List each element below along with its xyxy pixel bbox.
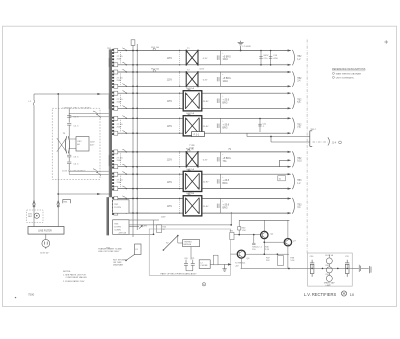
resistor R30 on drop [238,220,240,234]
svg-text:+5 BRG: +5 BRG [223,158,231,160]
transistor Q2 [261,231,268,238]
svg-text:115V: 115V [90,142,95,144]
row 4 top wire / bottom wire [113,118,291,133]
fuse FU11 [326,267,332,273]
circuit breaker CB4A [114,116,118,120]
riser to relay K1 coil [153,220,155,234]
svg-text:115V: 115V [167,80,173,82]
row 7 dashed link [120,200,122,212]
transformer T8 (core arcs) [65,136,69,153]
row 5 terminal brace [292,151,294,167]
row 1 dashed link [120,52,122,63]
svg-text:250V: 250V [117,80,122,82]
row 2 feed junctions [132,71,138,87]
circuit breaker CB4B [114,131,118,135]
svg-text:C20: C20 [184,258,187,260]
svg-text:J1-4: J1-4 [332,142,337,144]
neon indicator DS1 (dashed box) [27,210,43,223]
base wire [231,234,261,236]
svg-text:PART OF RECTIFIER BOARD ASSY: PART OF RECTIFIER BOARD ASSY [161,272,198,275]
transformer T3 (shielded) [183,89,202,111]
circuit breaker CB7B [114,211,118,215]
capacitor C20 [184,260,188,271]
row 7 primary dashed link [179,200,181,212]
svg-text:19 PIN: 19 PIN [114,207,121,209]
circuit breaker CB7A [114,197,118,201]
line filter FL1 (box) [28,227,64,235]
svg-text:+-20.8: +-20.8 [223,125,230,127]
svg-text:6.3V: 6.3V [203,79,208,81]
terminal bracket TB4 [63,199,71,203]
svg-text:20.8V: 20.8V [203,206,209,208]
terminal block TB2 (upper box) [113,200,129,213]
row 7 disconnect hooks [122,196,127,214]
svg-text:TB2: TB2 [297,78,302,80]
circuit breaker CB2B [114,84,118,88]
connector pin circle [339,141,342,144]
svg-text:C2 .5: C2 .5 [73,126,79,128]
row 1 primary dashed link [179,52,181,64]
svg-text:OSC: OSC [77,141,82,143]
wire C31 tap [346,264,348,268]
svg-text:100A: 100A [223,80,229,83]
rectifier CR4 [217,118,220,133]
svg-text:MAIN WIRING DIAGRAM: MAIN WIRING DIAGRAM [336,73,361,76]
svg-text:115V 60~: 115V 60~ [40,253,50,255]
wire choke to arrow [210,263,229,265]
bus terminal pins row 3 [112,92,114,111]
output connector bars [369,266,371,273]
capacitor C4 [67,162,71,170]
ground junction node [240,50,242,52]
capacitor C31 (electrolytic) [345,260,349,277]
row 6 top wire / bottom wire [113,174,291,188]
circuit breaker CB6B [114,187,118,191]
row 2 top wire / bottom wire [113,72,291,86]
row 6 terminal brace [292,174,294,190]
svg-text:115V: 115V [167,126,173,128]
AC input line L1 (vertical) [33,94,35,227]
choke L2 (box) [199,260,210,269]
svg-text:TB2: TB2 [297,158,302,160]
row 7 output arrows [288,197,292,214]
row 4 dashed link [120,120,122,132]
Q7 collector wire [287,220,289,238]
wire +28V tap [129,226,139,228]
svg-text:250V: 250V [117,127,122,129]
resistor R33 (box, vertical) [213,255,218,265]
row 6 disconnect hooks [122,172,127,190]
switch S1 arm [126,254,135,260]
row 1 top wire / bottom wire [113,51,291,65]
AC distribution bus TB1 (gray band) [109,49,112,197]
+28V rail wire [129,224,231,226]
arrow terminal B [57,201,60,207]
wire S2 to bridge [177,236,179,243]
bus lower section (gray band) [106,197,109,235]
wire below dashed box [58,193,110,195]
wire TB2 out 1 [129,212,149,214]
row 1 terminal brace [292,50,294,66]
wire to connector (upper) [247,136,310,138]
svg-text:BRG: BRG [223,183,228,185]
row 6 feed junctions [132,173,138,189]
wire to connector (lower) [271,141,310,143]
svg-text:FU12: FU12 [326,274,331,276]
cable dash-dot to J1 [313,141,328,143]
svg-text:LINE FILTER: LINE FILTER [38,230,52,232]
AC plug P1 [42,240,50,248]
svg-text:1.5K: 1.5K [242,230,247,232]
wire TB2 out 2 [129,219,159,221]
svg-text:C3 .5: C3 .5 [73,156,79,158]
svg-text:250V: 250V [117,160,122,162]
svg-text:COMPONENT VALUES: COMPONENT VALUES [66,276,88,279]
transistor Q7 [284,239,291,246]
svg-text:400~: 400~ [90,144,95,146]
svg-text:R31: R31 [230,230,233,232]
row 4 terminal brace [292,118,294,134]
wire L1 to bus (horizontal) [34,93,111,95]
resistor R34 (box, vertical) [278,255,284,265]
switch S2 [163,236,177,250]
emitter resistor chain wire [245,253,289,255]
row 5 center tap wire [279,160,288,166]
rectifier CR1 [217,51,220,65]
svg-text:+5 BRG: +5 BRG [223,78,231,80]
capacitor C11 (row 4) [258,119,261,133]
rectifier CR5 [217,152,220,167]
circuit breaker CB3B [114,106,118,110]
wire T7 bias drop [230,212,232,225]
svg-text:6.3V: 6.3V [203,58,208,60]
svg-text:2.2K: 2.2K [265,249,270,251]
wire filter to plug [45,234,47,240]
wires T8 to A1 [69,136,76,155]
filter main wire [308,267,353,269]
svg-text:TO REGUL: TO REGUL [235,263,246,265]
transformer T2 [186,69,198,87]
svg-text:F 2-1: F 2-1 [194,133,200,136]
Q7 base wire [264,241,284,243]
rectifier CR7 [217,199,220,214]
svg-text:+5V: +5V [235,265,239,267]
wire pair to bus (upper) [69,113,109,116]
svg-text:115V: 115V [167,58,173,60]
arrow terminal A [33,201,36,207]
varistor MOV1 (row 1) [259,51,262,65]
svg-text:115V: 115V [167,101,173,103]
svg-text:9,10: 9,10 [297,161,302,163]
Q2 collector wire [263,220,265,231]
row 3 disconnect hooks [122,91,127,109]
svg-text:+-20.8: +-20.8 [223,100,230,102]
bus terminal pins row 7 [112,197,114,215]
bus terminal pins row 5 [112,150,114,168]
svg-text:TB3: TB3 [297,180,302,182]
terminal block TB3 (lower box) [113,220,129,235]
transformer T5 [186,149,198,167]
svg-text:TB2-7: TB2-7 [310,129,317,131]
ground GND2 [222,264,226,271]
wire junction drop [270,137,272,143]
resistor R6 (row 6) [278,176,286,181]
row 4 output arrows [288,117,292,134]
wire bridge down [190,247,192,260]
filter junction nodes [322,268,324,270]
capacitor C30 (electrolytic) [310,260,314,277]
capacitor C3 [67,155,71,161]
svg-text:250V: 250V [117,58,122,60]
svg-text:20.8V: 20.8V [203,126,209,128]
Q2 emitter wire [263,239,265,255]
svg-text:2. FUSES RATED 250V: 2. FUSES RATED 250V [63,280,85,283]
output capacitor ticks [359,265,360,272]
svg-text:1. SEE PARTS LIST FOR: 1. SEE PARTS LIST FOR [63,274,86,277]
wire caps bottom rail [186,270,193,272]
upper bus hook [93,111,98,115]
resistor R20 (box) [157,225,162,233]
bus terminal pins row 4 [112,117,114,135]
zone symbol (circled 4) [202,283,205,286]
capacitor C12 [252,235,255,245]
output arrow to regulator [228,263,232,265]
row 5 disconnect hooks [122,149,127,167]
row 4 primary dashed link [179,120,181,133]
row 2 disconnect hooks [122,69,127,87]
bus terminal pins row 2 [112,70,114,88]
capacitor C21 [191,260,195,271]
circuit breaker CB6A [114,172,118,176]
circuit breaker CB5B [114,165,118,169]
rectifier CR3 [217,93,220,108]
svg-text:20.8V: 20.8V [203,101,209,103]
115V feed wire A (vertical) [132,40,134,237]
svg-text:NOTES:: NOTES: [63,271,71,273]
row 3 terminal brace [292,93,294,109]
rectifier CR6 [217,174,220,188]
svg-text:20.8V: 20.8V [203,182,209,184]
svg-text:C12 .1: C12 .1 [256,246,263,248]
fuse chain stubs [328,255,330,276]
Q7 emitter wire [287,246,289,269]
T8 core cross wires [57,138,67,152]
connector J1 brace [328,137,330,145]
svg-text:115V: 115V [188,193,193,195]
fuse FU10 [326,258,332,264]
row 4 disconnect hooks [122,116,127,134]
svg-text:115V: 115V [199,69,204,71]
transformer T1 [186,48,198,66]
return line (vertical) [57,94,59,227]
resistor R31 (box at board edge) [230,232,234,239]
wire TB3 out [129,233,154,235]
row 4 feed junctions [132,117,138,134]
relay K1 (box) [135,244,141,255]
capacitor C2 [67,123,71,136]
row 6 primary dashed link [179,175,181,187]
svg-text:250V: 250V [117,102,122,104]
row 3 output arrows [288,92,292,109]
row 6 dashed link [120,176,122,187]
row 5 output arrows [288,151,292,168]
revision symbol [341,291,346,296]
svg-text:TRANSFORMER T1 AND: TRANSFORMER T1 AND [98,247,122,250]
transformer T4 (shielded) [183,114,202,136]
row 3 dashed link [120,95,122,107]
svg-text:115V: 115V [167,182,173,184]
filter output wire [352,267,359,269]
filter enclosure box [308,253,353,286]
connector TB2-7 bracket [310,131,312,147]
chassis ground GND1 [238,41,244,51]
row 7 top wire / bottom wire [113,199,291,214]
transistor Q6 [237,250,245,258]
svg-text:250V: 250V [117,182,122,184]
lower bus hook [93,169,98,173]
svg-text:+-20.8: +-20.8 [223,180,230,182]
svg-text:CHOKE: CHOKE [200,265,208,267]
svg-text:10: 10 [350,293,354,297]
circuit breaker CB5A [114,150,118,154]
svg-text:TB2: TB2 [297,56,302,58]
sheet mark dot [15,297,16,298]
wire row4 to TB2-7 (vertical) [246,133,248,136]
row 7 terminal brace [292,198,294,214]
svg-text:+-20.8: +-20.8 [223,205,230,207]
row 1 disconnect hooks [122,48,127,66]
bus terminal pins row 1 [112,49,114,67]
svg-text:REFERENCE DESIGNATIONS: REFERENCE DESIGNATIONS [332,68,366,71]
svg-text:115V: 115V [189,148,194,150]
svg-text:TB2: TB2 [297,99,302,101]
part number box F2-1 [192,132,205,137]
svg-text:19 PIN: 19 PIN [114,227,121,229]
svg-text:LINE CKTS REF ONLY: LINE CKTS REF ONLY [98,251,120,253]
row 2 primary dashed link [179,73,181,85]
thyrector bridge CR10 (box) [183,240,200,247]
svg-text:BRIDGE: BRIDGE [184,244,192,246]
indicator lamp DS1 [34,213,39,218]
svg-text:CONTROL RECT OSC ASSY: CONTROL RECT OSC ASSY [62,107,91,110]
row 3 primary dashed link [179,94,181,107]
svg-text:MOV: MOV [264,55,269,57]
svg-text:115V: 115V [167,160,173,162]
svg-text:75A: 75A [223,160,228,163]
arrow +28V [139,225,142,228]
row 3 top wire / bottom wire [113,93,291,108]
svg-text:DIAGRAM: DIAGRAM [113,264,123,267]
svg-text:7S: 7S [228,149,231,151]
chassis boundary line (dash-dot vertical) [306,40,308,254]
fuse FU12 [326,275,332,281]
svg-text:LT GRN: LT GRN [243,46,251,48]
circuit breaker CB1A [114,49,118,53]
svg-text:BRG: BRG [223,127,228,129]
oscillator module A1 (box) [76,137,89,151]
115V feed wire B (vertical) [136,44,138,230]
output wire 2 [361,267,369,269]
svg-text:7500: 7500 [28,292,35,296]
svg-text:LAMP: LAMP [326,284,332,287]
capacitor C1 [67,108,71,122]
circuit breaker CB2A [114,70,118,74]
svg-text:+28V 2A: +28V 2A [118,231,127,234]
svg-text:UNIT SCHEMATIC: UNIT SCHEMATIC [336,77,355,80]
svg-text:TB3: TB3 [297,204,302,206]
svg-text:100A: 100A [223,58,229,61]
row 5 top wire / bottom wire [113,152,291,167]
junction node [270,136,272,138]
circuit breaker CB1B [114,63,118,67]
svg-text:L.V. RECTIFIERS: L.V. RECTIFIERS [304,292,337,297]
svg-text:6.3V: 6.3V [203,160,208,162]
row 5 primary dashed link [179,153,181,165]
circuit breaker CB3A [114,91,118,95]
svg-text:+5 BRG: +5 BRG [223,56,231,58]
svg-text:TB2: TB2 [297,124,302,126]
row 2 terminal brace [292,71,294,87]
row 2 dashed link [120,74,122,85]
bias rail wire [239,219,289,221]
row 7 feed junctions [132,198,138,214]
registration cross mark [384,40,388,44]
svg-text:C21: C21 [191,258,194,260]
wire C30 tap [311,264,313,268]
row 1 output arrows [288,49,292,66]
row 2 output arrows [288,71,292,88]
row 1 feed junctions [132,50,138,66]
svg-text:BRG: BRG [223,207,228,209]
row 5 dashed link [120,153,122,165]
lower rail to filter [241,268,308,270]
row 3 feed junctions [132,92,138,109]
bus terminal pins row 6 [112,173,114,191]
rectifier board outline [149,229,230,275]
svg-text:CONN: CONN [114,230,121,232]
rectifier CR2 [217,72,220,86]
regulator dashed enclosure [52,108,100,179]
Q6 base wire [231,253,238,255]
svg-text:115V: 115V [167,206,173,208]
svg-text:BRG: BRG [223,102,228,104]
capacitor C10A (row 1) [269,51,272,65]
row 6 output arrows [288,173,292,190]
svg-text:C4 .5: C4 .5 [73,164,79,166]
transformer T6 (shielded) [183,169,202,191]
svg-text:115V: 115V [161,216,166,218]
svg-text:5.1K: 5.1K [290,260,295,262]
wire pair to bus (lower) [69,171,109,174]
row 5 feed junctions [132,151,138,168]
fuse F1 on feed wire A [131,40,135,46]
Q6 emitter drop [240,258,242,268]
svg-text:28V: 28V [143,225,147,227]
transformer T7 (shielded) [183,194,202,216]
